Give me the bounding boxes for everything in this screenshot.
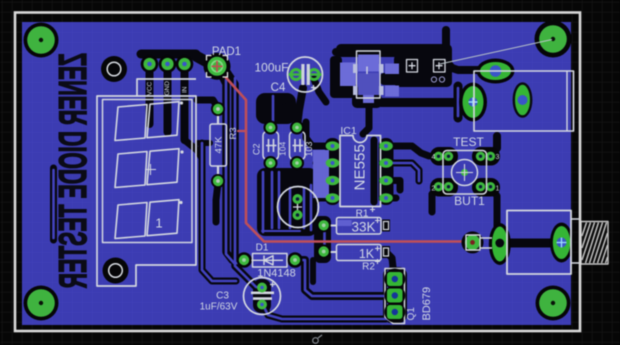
resistor R2 pads — [317, 245, 331, 259]
svg-text:1: 1 — [155, 216, 162, 231]
svg-text:1uF/63V: 1uF/63V — [200, 302, 238, 313]
top layer red traces — [221, 72, 470, 242]
mounting hole bottom-right — [536, 286, 571, 321]
wire — [310, 185, 313, 230]
wire bottom trace in R1 body — [338, 220, 352, 226]
wire IC1 right pads to button — [387, 146, 429, 156]
wire regulator bottom band — [381, 98, 462, 107]
button BUT1 outline — [443, 151, 487, 195]
button BUT1 pads — [430, 147, 500, 197]
svg-text:1N4148: 1N4148 — [257, 268, 296, 280]
svg-text:Q1: Q1 — [406, 307, 417, 321]
header pin VCC — [141, 55, 159, 73]
header pin IN — [176, 55, 194, 73]
display LCD outer outline — [97, 79, 196, 286]
svg-text:104: 104 — [278, 142, 288, 156]
wire C4 to C2 — [297, 88, 303, 127]
wire C1 blob — [285, 188, 295, 228]
wire oval to button — [454, 86, 463, 118]
svg-text:NE555: NE555 — [352, 144, 369, 190]
display pad dark bottom — [103, 258, 129, 284]
smd pad right top — [385, 64, 399, 75]
plus square 1 — [407, 60, 418, 73]
resistor R3 pads — [211, 102, 225, 116]
mounting hole bottom-left — [24, 286, 59, 321]
wire R1 left into pour — [315, 222, 324, 229]
svg-text:D1: D1 — [256, 243, 269, 254]
wire header band to PAD1 — [141, 50, 196, 59]
wire regulator top band — [336, 52, 448, 60]
svg-text:2: 2 — [432, 186, 436, 193]
svg-text:GND: GND — [164, 81, 171, 96]
op-amp U1 IC1 NE555 outline — [340, 136, 381, 207]
wire — [235, 78, 262, 288]
svg-text:1K: 1K — [359, 247, 375, 261]
smd pad regulator body bottom — [358, 73, 379, 95]
capacitor C1 circle — [278, 187, 319, 228]
wire — [262, 303, 394, 319]
wire C2 bottoms down — [267, 166, 273, 228]
capacitor 103 body — [290, 132, 306, 160]
wire button left-bottom down — [432, 187, 438, 212]
wire IC1 left pads — [306, 122, 331, 146]
wire — [202, 143, 236, 281]
smd pad regulator left — [340, 63, 356, 87]
svg-text:103: 103 — [304, 141, 314, 156]
wire IC1 inner — [371, 140, 378, 202]
mounting hole top-right — [535, 21, 572, 58]
wire R3 bottom — [216, 183, 218, 222]
digit row B — [115, 149, 179, 188]
node regulator cluster pour gap — [336, 44, 452, 57]
svg-text:1: 1 — [496, 186, 500, 193]
wire — [271, 172, 274, 228]
svg-text:R2: R2 — [362, 262, 375, 273]
connector outline top right — [474, 71, 574, 131]
wire R2 to Q1 top — [386, 252, 394, 276]
wire — [278, 172, 281, 228]
node R1 left pour gap — [314, 216, 331, 263]
svg-text:100uF: 100uF — [254, 61, 288, 75]
wire — [323, 231, 326, 248]
smd pad regulator body top — [358, 55, 379, 72]
svg-text:ZENER DIODE TESTER: ZENER DIODE TESTER — [51, 53, 94, 289]
wire regulator tab down to IC1 — [363, 100, 369, 134]
op-amp U1 pads left — [326, 141, 340, 203]
wire D1 right to Q1 — [295, 260, 390, 296]
svg-text:BD679: BD679 — [421, 287, 433, 321]
node C3 clearance — [253, 279, 271, 313]
wire R3 top — [197, 100, 218, 108]
svg-text:BUT1: BUT1 — [454, 194, 485, 208]
connector pad oval top — [477, 59, 515, 84]
terminal pad oval — [489, 223, 511, 265]
smd pad right bottom — [385, 86, 399, 97]
resistor R3 body — [210, 124, 227, 166]
wire — [272, 96, 275, 121]
wire display right vertical — [202, 143, 236, 281]
wire — [52, 170, 55, 238]
wire red stub — [238, 130, 246, 132]
dc jack pad — [550, 223, 573, 263]
plus square 2 — [434, 60, 446, 73]
svg-text:47K: 47K — [214, 136, 225, 154]
wire bottom trace under IC1 left — [313, 150, 329, 198]
dc jack outline — [507, 211, 571, 275]
resistor R2 body — [337, 245, 382, 261]
wire C2 tops merge — [270, 98, 290, 125]
holes pair — [431, 77, 436, 82]
display pad dark top — [101, 56, 127, 82]
connector pad oval mid — [514, 84, 531, 117]
terminal pad round — [462, 231, 484, 253]
airwire — [440, 40, 552, 65]
wire jack pad to terminal — [508, 239, 552, 248]
wire — [262, 230, 300, 232]
svg-text:IN: IN — [182, 86, 189, 93]
diode D1 body — [253, 254, 288, 268]
terminal outline — [466, 235, 492, 250]
capacitor C3 circle — [244, 278, 281, 315]
capacitor C2 pads — [264, 121, 278, 135]
node cursor icon — [313, 335, 322, 343]
svg-text:4: 4 — [432, 154, 436, 161]
display window rect — [103, 100, 193, 243]
wire red PAD1 to net — [221, 72, 470, 242]
node IC1 pad columns — [325, 138, 340, 205]
header pin GND — [159, 55, 177, 73]
digit decimal dots — [180, 101, 183, 104]
wire — [457, 88, 460, 116]
button cross — [456, 164, 473, 181]
wire C4 right down — [314, 79, 326, 102]
capacitor C3 pads — [257, 283, 267, 293]
node D1 clearance — [236, 252, 252, 268]
svg-text:33K: 33K — [351, 220, 375, 235]
smd blue blocks — [313, 55, 399, 227]
node Q1 clearance — [383, 267, 407, 323]
connector pad oval left — [459, 83, 487, 122]
resistor R1 pads — [317, 218, 331, 232]
mounting hole top-left — [24, 23, 59, 58]
dc jack barrel hatched — [581, 222, 608, 265]
capacitor C1 pads — [293, 194, 303, 204]
svg-text:R3: R3 — [228, 127, 239, 139]
wire button right down — [491, 187, 497, 226]
wire — [226, 80, 243, 263]
transistor Q1 outline — [385, 269, 405, 324]
svg-text:3: 3 — [496, 154, 500, 161]
capacitor C4 circle — [288, 57, 323, 92]
svg-text:VCC: VCC — [147, 81, 154, 95]
resistor R1 body — [337, 218, 382, 235]
wire — [387, 271, 389, 320]
regulator outline — [357, 51, 381, 98]
wire PAD1 to D1 vertical pair — [221, 74, 242, 260]
node C1 cluster pour gap — [257, 168, 317, 236]
capacitor 103 pads — [290, 121, 304, 135]
display origin cross — [145, 164, 156, 175]
wire — [295, 260, 390, 296]
wire PAD1 to C3 — [227, 72, 262, 288]
svg-text:PAD1: PAD1 — [212, 46, 241, 58]
op-amp U1 pads right — [379, 141, 393, 203]
capacitor C4 pads — [289, 64, 322, 85]
node above C2 pour gap — [256, 93, 296, 124]
wire right squares to oval — [445, 60, 482, 70]
svg-text:C3: C3 — [216, 291, 229, 302]
node origin cross marks — [370, 207, 380, 264]
diode D1 pads — [237, 253, 252, 268]
wire — [262, 172, 265, 232]
svg-text:R1: R1 — [356, 209, 369, 220]
svg-text:TEST: TEST — [453, 135, 484, 149]
svg-text:IC1: IC1 — [340, 125, 357, 137]
transistor Q1 pads — [384, 269, 405, 323]
wire C3 bottom to Q1 bottom — [262, 303, 394, 319]
smd pad regulator tab — [363, 95, 374, 103]
digit row C — [115, 200, 179, 239]
board substrate (ground pour) — [22, 22, 571, 325]
wire header pins down — [150, 58, 185, 140]
wire — [387, 163, 419, 181]
wire edge left column — [50, 168, 57, 240]
svg-text:C2: C2 — [252, 143, 262, 155]
wire — [303, 188, 306, 228]
capacitor C2 body — [263, 132, 279, 160]
svg-text:C4: C4 — [271, 82, 286, 94]
wire — [289, 188, 292, 228]
digit row A — [115, 102, 179, 141]
pad PAD1 — [204, 53, 231, 80]
